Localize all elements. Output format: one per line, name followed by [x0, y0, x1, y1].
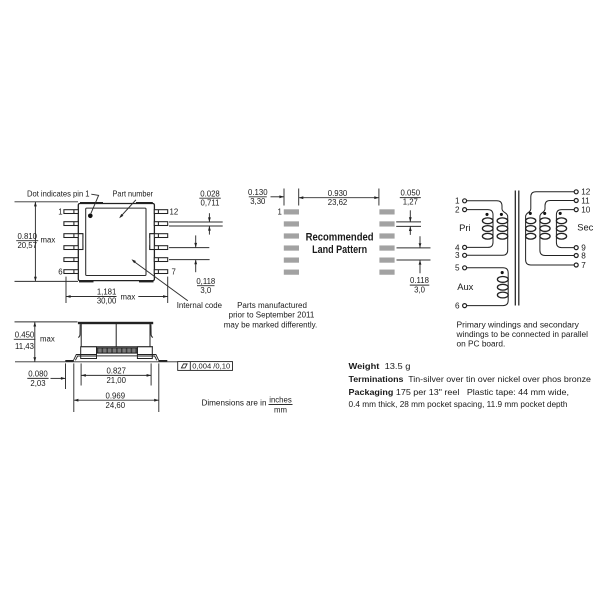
land pad 6 [284, 270, 299, 275]
pin 2 [64, 222, 78, 226]
svg-text:Part number: Part number [113, 190, 154, 199]
dim 0.827: dimension line [81, 374, 151, 376]
side view body left edge [80, 324, 82, 347]
svg-text:0.827: 0.827 [106, 367, 126, 376]
dim 0.810: bottom arrowhead [34, 277, 37, 282]
dim 0,118: lower line at pin 8 center [169, 259, 210, 261]
dim 0.028: lower arrow [208, 226, 210, 235]
dim 0.810: vertical dimension line [34, 202, 36, 282]
svg-text:Terminations Tin-silver over: Terminations Tin-silver over tin over ni… [349, 374, 592, 384]
node 1 terminal [463, 199, 467, 203]
primary winding A polarity dot [485, 213, 488, 216]
land pad 4 [284, 245, 299, 250]
svg-text:Land Pattern: Land Pattern [312, 244, 367, 256]
transformer core lines [515, 191, 519, 306]
svg-text:1,181: 1,181 [97, 288, 117, 297]
pin 11 [154, 222, 167, 226]
side view left ear [78, 324, 80, 337]
dim 0,118: upper arrow [195, 235, 197, 247]
svg-text:Primary windings and secondary: Primary windings and secondary [457, 320, 579, 329]
dim 0.969/24,60: right extension line [158, 363, 160, 412]
pin 3 [64, 234, 83, 238]
dim text 0.810 over 20,57 [16, 232, 55, 250]
dim 0.118/3,0 (land): upper line at pad 9 center [397, 247, 431, 249]
primary winding A wire (pin 2 to pin 4, spine) [467, 210, 494, 248]
side view right flange [137, 347, 152, 359]
side view bobbin bottom line [97, 355, 138, 357]
dim text 0,118 over 3,0 (package) [196, 277, 215, 295]
svg-text:1: 1 [455, 197, 460, 206]
land pad 9 [379, 245, 394, 250]
dim 0.827/21,00: left extension line [80, 363, 82, 385]
shared extension line (lead bend / 0.969 left) [73, 363, 75, 412]
node 10 terminal [574, 208, 578, 212]
svg-text:Packaging 175 per 13" reel P: Packaging 175 per 13" reel Plastic tape:… [349, 387, 570, 397]
secondary winding A coil (pins 12-7) [526, 218, 536, 239]
side view winding hatch [97, 348, 138, 353]
svg-text:1: 1 [58, 207, 62, 216]
svg-text:1: 1 [277, 208, 281, 217]
dim text 0.930 over 23,62 [328, 189, 348, 207]
svg-text:5: 5 [455, 264, 460, 273]
node 9 terminal [574, 246, 578, 250]
schematic caption [455, 320, 588, 348]
seating plane line [15, 361, 178, 363]
dim text 0.118 over 3,0 (land) [410, 276, 430, 294]
svg-text:Recommended: Recommended [306, 232, 374, 244]
svg-text:21,00: 21,00 [106, 376, 126, 385]
dim 0.450: top arrowhead [33, 322, 36, 327]
node 11 terminal [574, 199, 578, 203]
dim 1,181: right arrowhead [163, 295, 168, 298]
node 6 terminal [463, 304, 467, 308]
dim 0.930/23,62: dimension line [299, 197, 379, 199]
land pad 7 [379, 270, 394, 275]
dim 0.827: left arrowhead [81, 374, 86, 377]
dim 0.050: pad thickness lines [396, 221, 421, 223]
secondary winding C wire (pin 10 to pin 9, spine) [556, 210, 574, 248]
land pattern title [306, 232, 374, 257]
pin 1 indicator dot [88, 214, 93, 219]
dim 0.810: bottom extension line [15, 280, 79, 282]
svg-text:1,27: 1,27 [403, 198, 418, 207]
svg-text:0.080: 0.080 [28, 369, 48, 378]
dim 0.969: dimension line [74, 399, 159, 401]
land pad 2 [284, 221, 299, 226]
secondary winding C polarity dot [559, 212, 562, 215]
svg-text:Aux: Aux [457, 281, 473, 292]
svg-text:0.450: 0.450 [15, 330, 35, 339]
svg-text:30,00: 30,00 [97, 296, 117, 305]
aux winding polarity dot [501, 271, 504, 274]
svg-text:2,03: 2,03 [30, 379, 45, 388]
aux winding coil (pins 5-6) [497, 277, 508, 298]
svg-text:11: 11 [581, 196, 590, 205]
svg-text:0.050: 0.050 [401, 189, 421, 198]
dim text 0.028 over 0,711 [199, 189, 221, 207]
land pad 12 [379, 209, 394, 214]
flatness symbol [181, 364, 187, 368]
svg-text:12: 12 [170, 207, 179, 216]
svg-text:mm: mm [274, 405, 287, 414]
side view left flange [81, 347, 97, 359]
pin 9 [150, 246, 168, 250]
svg-text:24,60: 24,60 [106, 401, 126, 410]
part number leader arrowhead [119, 214, 123, 218]
dim text 0.969 over 24,60 [106, 392, 126, 411]
node 3 terminal [463, 253, 467, 257]
dim 0.450/11,43 max: top extension line [15, 321, 78, 323]
dim 0.080: arrowhead [61, 377, 66, 380]
pin 7 [154, 270, 167, 274]
svg-text:0.028: 0.028 [200, 189, 220, 198]
leader from label to dot [91, 194, 99, 213]
secondary winding B coil (pins 11-8) [540, 218, 550, 239]
svg-text:max: max [121, 293, 136, 302]
secondary winding A wire (pin 12 to pin 7, spine) [526, 192, 575, 265]
pin 4 [64, 246, 83, 250]
primary winding B polarity dot [500, 213, 503, 216]
svg-text:Internal code: Internal code [177, 301, 223, 310]
svg-text:0.130: 0.130 [248, 188, 268, 197]
side view body bottom line [81, 346, 153, 348]
dim 0.810/20,57 max: top extension line [15, 201, 79, 203]
dim 0,118/3,0 (package): upper line at pin 9 center [169, 247, 209, 249]
top edge bump right [136, 202, 153, 204]
dim 0.969: left arrowhead [74, 399, 79, 402]
dim 0.130/3,30: text [248, 188, 268, 206]
internal code leader arrowhead [132, 259, 136, 263]
left fused-lead tab [78, 234, 83, 250]
land pad 11 [379, 221, 394, 226]
dim text 0.080 over 2,03 [27, 369, 48, 388]
dim 0.450: vertical dimension line [34, 322, 36, 362]
svg-text:Dot indicates pin 1: Dot indicates pin 1 [27, 190, 90, 199]
dim 1,181: left arrowhead [66, 295, 71, 298]
svg-text:0.118: 0.118 [410, 276, 429, 285]
svg-text:Parts manufactured: Parts manufactured [237, 301, 307, 310]
svg-text:0.969: 0.969 [106, 392, 126, 401]
dim 0.118 (land): upper arrow [419, 236, 421, 248]
land pad 10 [379, 233, 394, 238]
dim 1,181: dimension line left segment [66, 296, 117, 298]
svg-text:prior to September 2011: prior to September 2011 [229, 311, 315, 320]
svg-text:0,004 /0,10: 0,004 /0,10 [192, 362, 230, 371]
dim 0.118 (land): lower arrow [419, 260, 421, 273]
dim 0.130: arrow shaft [271, 196, 284, 198]
svg-text:3,30: 3,30 [250, 197, 266, 206]
flatness feature control frame box [178, 362, 233, 371]
top edge bump left [80, 202, 103, 204]
node 8 terminal [574, 254, 578, 258]
svg-text:2: 2 [455, 206, 460, 215]
dim 0.130: left extension line [283, 189, 285, 206]
svg-text:Weight 13.5 g: Weight 13.5 g [349, 361, 411, 371]
side view left gull-wing lead [74, 355, 97, 361]
svg-text:may be marked differently.: may be marked differently. [224, 320, 318, 329]
svg-text:12: 12 [581, 188, 591, 197]
svg-text:0.4 mm thick, 28 mm pocket spa: 0.4 mm thick, 28 mm pocket spacing, 11.9… [349, 399, 568, 409]
primary winding A coil (pins 2-4) [482, 218, 493, 239]
primary winding B wire (pin 1 to pin 3, spine) [467, 201, 508, 256]
dim 0.827: right arrowhead [147, 374, 152, 377]
pin 5 [64, 258, 78, 262]
land pad 8 [379, 258, 394, 263]
node 4 terminal [463, 245, 467, 249]
node 7 terminal [574, 263, 578, 267]
land pad 1 [284, 209, 299, 214]
svg-text:3,0: 3,0 [200, 286, 212, 295]
pin 1 [64, 210, 78, 214]
dim 1,181/30,00 max: left extension line [65, 277, 67, 303]
pin 6 [64, 270, 78, 274]
svg-text:0,711: 0,711 [201, 198, 220, 207]
side view body right edge [149, 324, 151, 347]
pin 12 [154, 210, 167, 214]
dim text 1,181 over 30,00 [97, 288, 135, 306]
svg-text:10: 10 [581, 206, 591, 215]
svg-text:max: max [40, 335, 55, 344]
svg-text:20,57: 20,57 [17, 241, 37, 250]
bottom foot right [139, 281, 154, 283]
package body outline [78, 204, 154, 281]
primary winding B coil (pins 1-3) [497, 218, 508, 239]
svg-text:11,43: 11,43 [15, 342, 34, 351]
svg-text:7: 7 [172, 267, 176, 276]
secondary winding A polarity dot [529, 212, 532, 215]
dim 0.810: top arrowhead [34, 202, 37, 207]
node 5 terminal [463, 266, 467, 270]
dim 0.930: right extension line [378, 189, 380, 206]
dim 0.118 (land): lower line at pad 8 center [397, 259, 431, 261]
dim 0.050: upper arrow [409, 210, 411, 222]
svg-text:6: 6 [58, 267, 62, 276]
dimensions are in note [202, 396, 293, 415]
svg-text:3: 3 [455, 251, 460, 260]
dim 0.028/0,711: pin lead thickness lines [169, 221, 223, 223]
dim 1,181: dimension line right segment [138, 296, 167, 298]
package inner outline [86, 208, 146, 275]
dim 0.130: right extension line / 0.930 left extension [298, 189, 300, 206]
dim 0.130: arrowhead [279, 195, 284, 198]
svg-text:0,118: 0,118 [196, 277, 215, 286]
dim 0.028: upper arrow [208, 213, 210, 222]
svg-text:8: 8 [581, 251, 586, 260]
bottom foot left [79, 281, 94, 283]
side view right ear [151, 324, 153, 337]
side view top lid [78, 322, 153, 324]
svg-text:Sec: Sec [577, 222, 593, 233]
dim 0.050: lower arrow [409, 227, 411, 235]
svg-text:0.930: 0.930 [328, 189, 348, 198]
svg-text:inches: inches [269, 396, 292, 405]
dim 0.450: bottom arrowhead [33, 357, 36, 362]
aux winding wire (pin 5 to pin 6, spine) [467, 268, 509, 306]
svg-text:windings to be connected in pa: windings to be connected in parallel [455, 330, 588, 339]
svg-text:6: 6 [455, 302, 460, 311]
dim text 0.827 over 21,00 [106, 367, 126, 386]
svg-text:Dimensions are in: Dimensions are in [202, 397, 267, 407]
internal code leader [133, 261, 188, 301]
svg-text:7: 7 [581, 261, 586, 270]
svg-text:on PC board.: on PC board. [457, 340, 506, 349]
svg-text:max: max [41, 236, 56, 245]
dim 1,181: right extension line [167, 277, 169, 303]
node 12 terminal [574, 190, 578, 194]
dim 0.050/1,27: text [400, 189, 421, 207]
side view right gull-wing lead [137, 355, 159, 361]
node 2 terminal [463, 208, 467, 212]
dim text 0.450 over 11,43 [14, 330, 55, 351]
dim 0.930: right arrowhead [374, 196, 379, 199]
pin 10 [150, 234, 168, 238]
land pad 5 [284, 258, 299, 263]
secondary winding C coil (pins 10-9) [556, 218, 566, 239]
svg-text:23,62: 23,62 [328, 198, 348, 207]
secondary winding B wire (pin 11 to pin 8, spine) [540, 201, 574, 256]
dim 0.827: right extension line [150, 363, 152, 385]
dim 0.080: arrow shaft [51, 377, 66, 379]
dim 0.930: left arrowhead [299, 196, 304, 199]
svg-text:3,0: 3,0 [414, 286, 426, 295]
right fused-lead tab [150, 234, 155, 250]
dim 0,118: lower arrow [195, 260, 197, 272]
dim 0.080: left extension line (lead tip) [65, 363, 67, 389]
svg-text:0.810: 0.810 [17, 232, 37, 241]
svg-text:Pri: Pri [459, 222, 470, 233]
pin 8 [154, 258, 167, 262]
dim 0.969: right arrowhead [154, 399, 159, 402]
secondary winding B polarity dot [543, 212, 546, 215]
part number leader [120, 200, 136, 217]
side view center split [115, 323, 117, 347]
land pad 3 [284, 233, 299, 238]
note: parts manufactured [224, 301, 318, 329]
